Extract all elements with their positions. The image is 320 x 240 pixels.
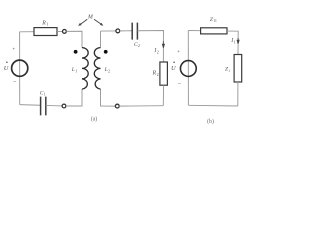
- svg-text:U: U: [4, 65, 9, 72]
- svg-text:2: 2: [157, 72, 159, 77]
- svg-text:1: 1: [234, 40, 236, 45]
- svg-text:U: U: [171, 65, 176, 72]
- svg-text:−: −: [178, 81, 182, 88]
- svg-text:1: 1: [44, 93, 46, 97]
- svg-text:2: 2: [138, 44, 140, 48]
- svg-text:(a): (a): [91, 116, 98, 123]
- svg-text:−: −: [13, 79, 17, 86]
- svg-text:+: +: [12, 47, 15, 53]
- svg-text:1: 1: [75, 69, 77, 73]
- svg-text:(b): (b): [207, 118, 214, 125]
- svg-text:2: 2: [157, 50, 159, 55]
- svg-text:1: 1: [46, 22, 48, 27]
- svg-text:i: i: [229, 69, 230, 73]
- svg-text:11: 11: [213, 19, 217, 23]
- svg-text:+: +: [177, 49, 180, 55]
- svg-text:2: 2: [108, 69, 110, 73]
